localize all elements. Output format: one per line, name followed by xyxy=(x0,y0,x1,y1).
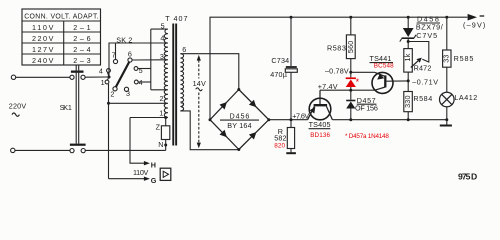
svg-text:582: 582 xyxy=(274,134,287,143)
svg-text:820: 820 xyxy=(274,143,285,150)
svg-text:OF 156: OF 156 xyxy=(355,103,378,112)
svg-text:2–1: 2–1 xyxy=(73,23,91,32)
svg-text:4: 4 xyxy=(139,78,143,87)
svg-text:(–9V): (–9V) xyxy=(463,20,486,29)
svg-text:2: 2 xyxy=(160,94,164,103)
svg-text:+7.4V: +7.4V xyxy=(318,82,338,91)
svg-text:+7.6V: +7.6V xyxy=(292,111,309,120)
svg-text:470µ: 470µ xyxy=(270,70,287,79)
svg-text:2–4: 2–4 xyxy=(73,45,91,54)
svg-text:BD136: BD136 xyxy=(310,132,330,139)
svg-text:4: 4 xyxy=(160,33,164,42)
svg-text:SK 1: SK 1 xyxy=(60,103,73,112)
svg-text:–0.71V: –0.71V xyxy=(412,77,438,86)
svg-text:220V: 220V xyxy=(32,34,54,43)
svg-text:6: 6 xyxy=(128,49,132,58)
svg-text:1: 1 xyxy=(159,109,163,118)
svg-text:G: G xyxy=(151,176,157,185)
svg-text:127V: 127V xyxy=(32,45,54,54)
svg-text:975 D: 975 D xyxy=(458,171,477,181)
svg-text:H: H xyxy=(151,161,156,170)
svg-text:R585: R585 xyxy=(454,54,474,63)
svg-text:3: 3 xyxy=(160,52,164,61)
svg-text:5: 5 xyxy=(139,66,143,75)
svg-text:1: 1 xyxy=(101,78,105,87)
svg-text:BZX79/: BZX79/ xyxy=(416,22,443,31)
svg-text:C734: C734 xyxy=(271,56,289,65)
svg-text:4: 4 xyxy=(99,66,103,75)
svg-text:110V: 110V xyxy=(32,23,54,32)
svg-text:TS405: TS405 xyxy=(309,120,331,129)
svg-text:* D457a 1N4148: * D457a 1N4148 xyxy=(345,133,389,140)
svg-text:2–6: 2–6 xyxy=(73,34,91,43)
svg-text:220V: 220V xyxy=(9,102,27,111)
svg-text:6: 6 xyxy=(182,45,186,54)
svg-text:R472: R472 xyxy=(414,64,432,73)
svg-text:C7V5: C7V5 xyxy=(416,31,437,40)
svg-text:CONN. VOLT. ADAPT.: CONN. VOLT. ADAPT. xyxy=(24,13,99,20)
svg-text:2–3: 2–3 xyxy=(73,56,91,65)
svg-text:5: 5 xyxy=(161,21,165,30)
svg-text:560: 560 xyxy=(346,41,355,54)
svg-text:1k: 1k xyxy=(403,53,412,61)
svg-text:N: N xyxy=(158,140,163,149)
svg-text:330: 330 xyxy=(403,95,412,108)
svg-text:BC548: BC548 xyxy=(374,63,394,70)
svg-text:240V: 240V xyxy=(32,56,54,65)
svg-text:R583: R583 xyxy=(327,44,346,53)
svg-text:R584: R584 xyxy=(413,94,432,103)
svg-text:Z: Z xyxy=(156,122,161,131)
svg-text:33: 33 xyxy=(442,54,451,62)
svg-text:3: 3 xyxy=(126,89,130,98)
svg-text:–0.78V: –0.78V xyxy=(325,66,349,75)
svg-text:7: 7 xyxy=(180,101,184,110)
svg-text:110V: 110V xyxy=(133,168,149,177)
svg-text:D456: D456 xyxy=(230,112,250,121)
svg-text:*: * xyxy=(356,77,360,87)
svg-text:14V: 14V xyxy=(193,79,206,88)
svg-text:2: 2 xyxy=(110,89,114,98)
svg-text:BY 164: BY 164 xyxy=(227,121,252,130)
svg-text:LA412: LA412 xyxy=(454,93,477,102)
svg-text:T 407: T 407 xyxy=(165,14,188,23)
